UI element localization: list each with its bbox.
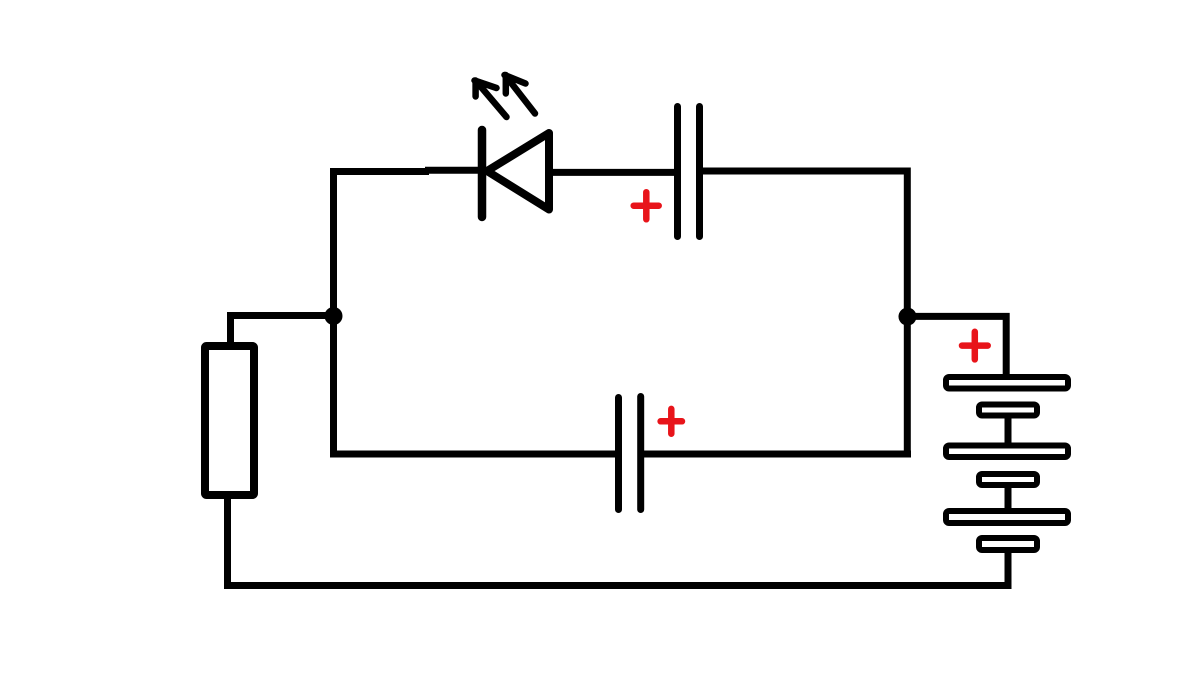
capacitor C1 right plate — [696, 107, 703, 237]
wire LED to C1 — [545, 169, 676, 176]
wire top segment to LED — [425, 167, 483, 174]
resistor R1 — [205, 346, 254, 495]
LED D1 cathode bar — [478, 130, 487, 217]
LED D1 arrow 2 — [505, 75, 536, 114]
wire top-left corner and left vertical — [334, 172, 430, 458]
capacitor C2 — [619, 397, 683, 510]
battery BT1 cell 2 short plate — [979, 474, 1037, 485]
LED D1 — [475, 75, 550, 217]
junction dot left node — [325, 307, 343, 325]
capacitor C1 polarity + label — [634, 192, 659, 219]
capacitor C2 right plate — [637, 397, 644, 510]
wire junction to resistor top lead — [231, 316, 334, 346]
LED D1 arrow 1 — [475, 81, 507, 118]
capacitor C2 left plate — [615, 398, 622, 510]
LED D1 triangle — [487, 133, 549, 210]
battery BT1 connector 1 — [1005, 417, 1012, 444]
junction dot right node — [899, 308, 917, 326]
capacitor C1 — [634, 107, 700, 237]
capacitor C1 left plate — [674, 107, 681, 237]
battery BT1 connector 2 — [1005, 487, 1012, 510]
battery BT1 cell 3 long plate — [946, 511, 1068, 523]
wire C1 to top-right corner and right vertical — [701, 171, 907, 458]
battery BT1 cell 2 long plate — [946, 446, 1068, 458]
wire middle branch right — [643, 451, 911, 458]
battery BT1 cell 1 short plate — [979, 405, 1037, 416]
battery BT1 plus label — [962, 332, 988, 360]
wire battery bottom to bottom rail and resistor bottom lead — [228, 497, 1009, 586]
battery BT1 cell 3 short plate — [979, 538, 1037, 550]
battery BT1 cell 1 long plate — [946, 377, 1068, 389]
battery BT1 — [946, 332, 1068, 550]
wire middle branch left — [330, 451, 616, 458]
capacitor C2 polarity + label — [661, 409, 682, 434]
wire junction to battery top — [910, 316, 1006, 378]
